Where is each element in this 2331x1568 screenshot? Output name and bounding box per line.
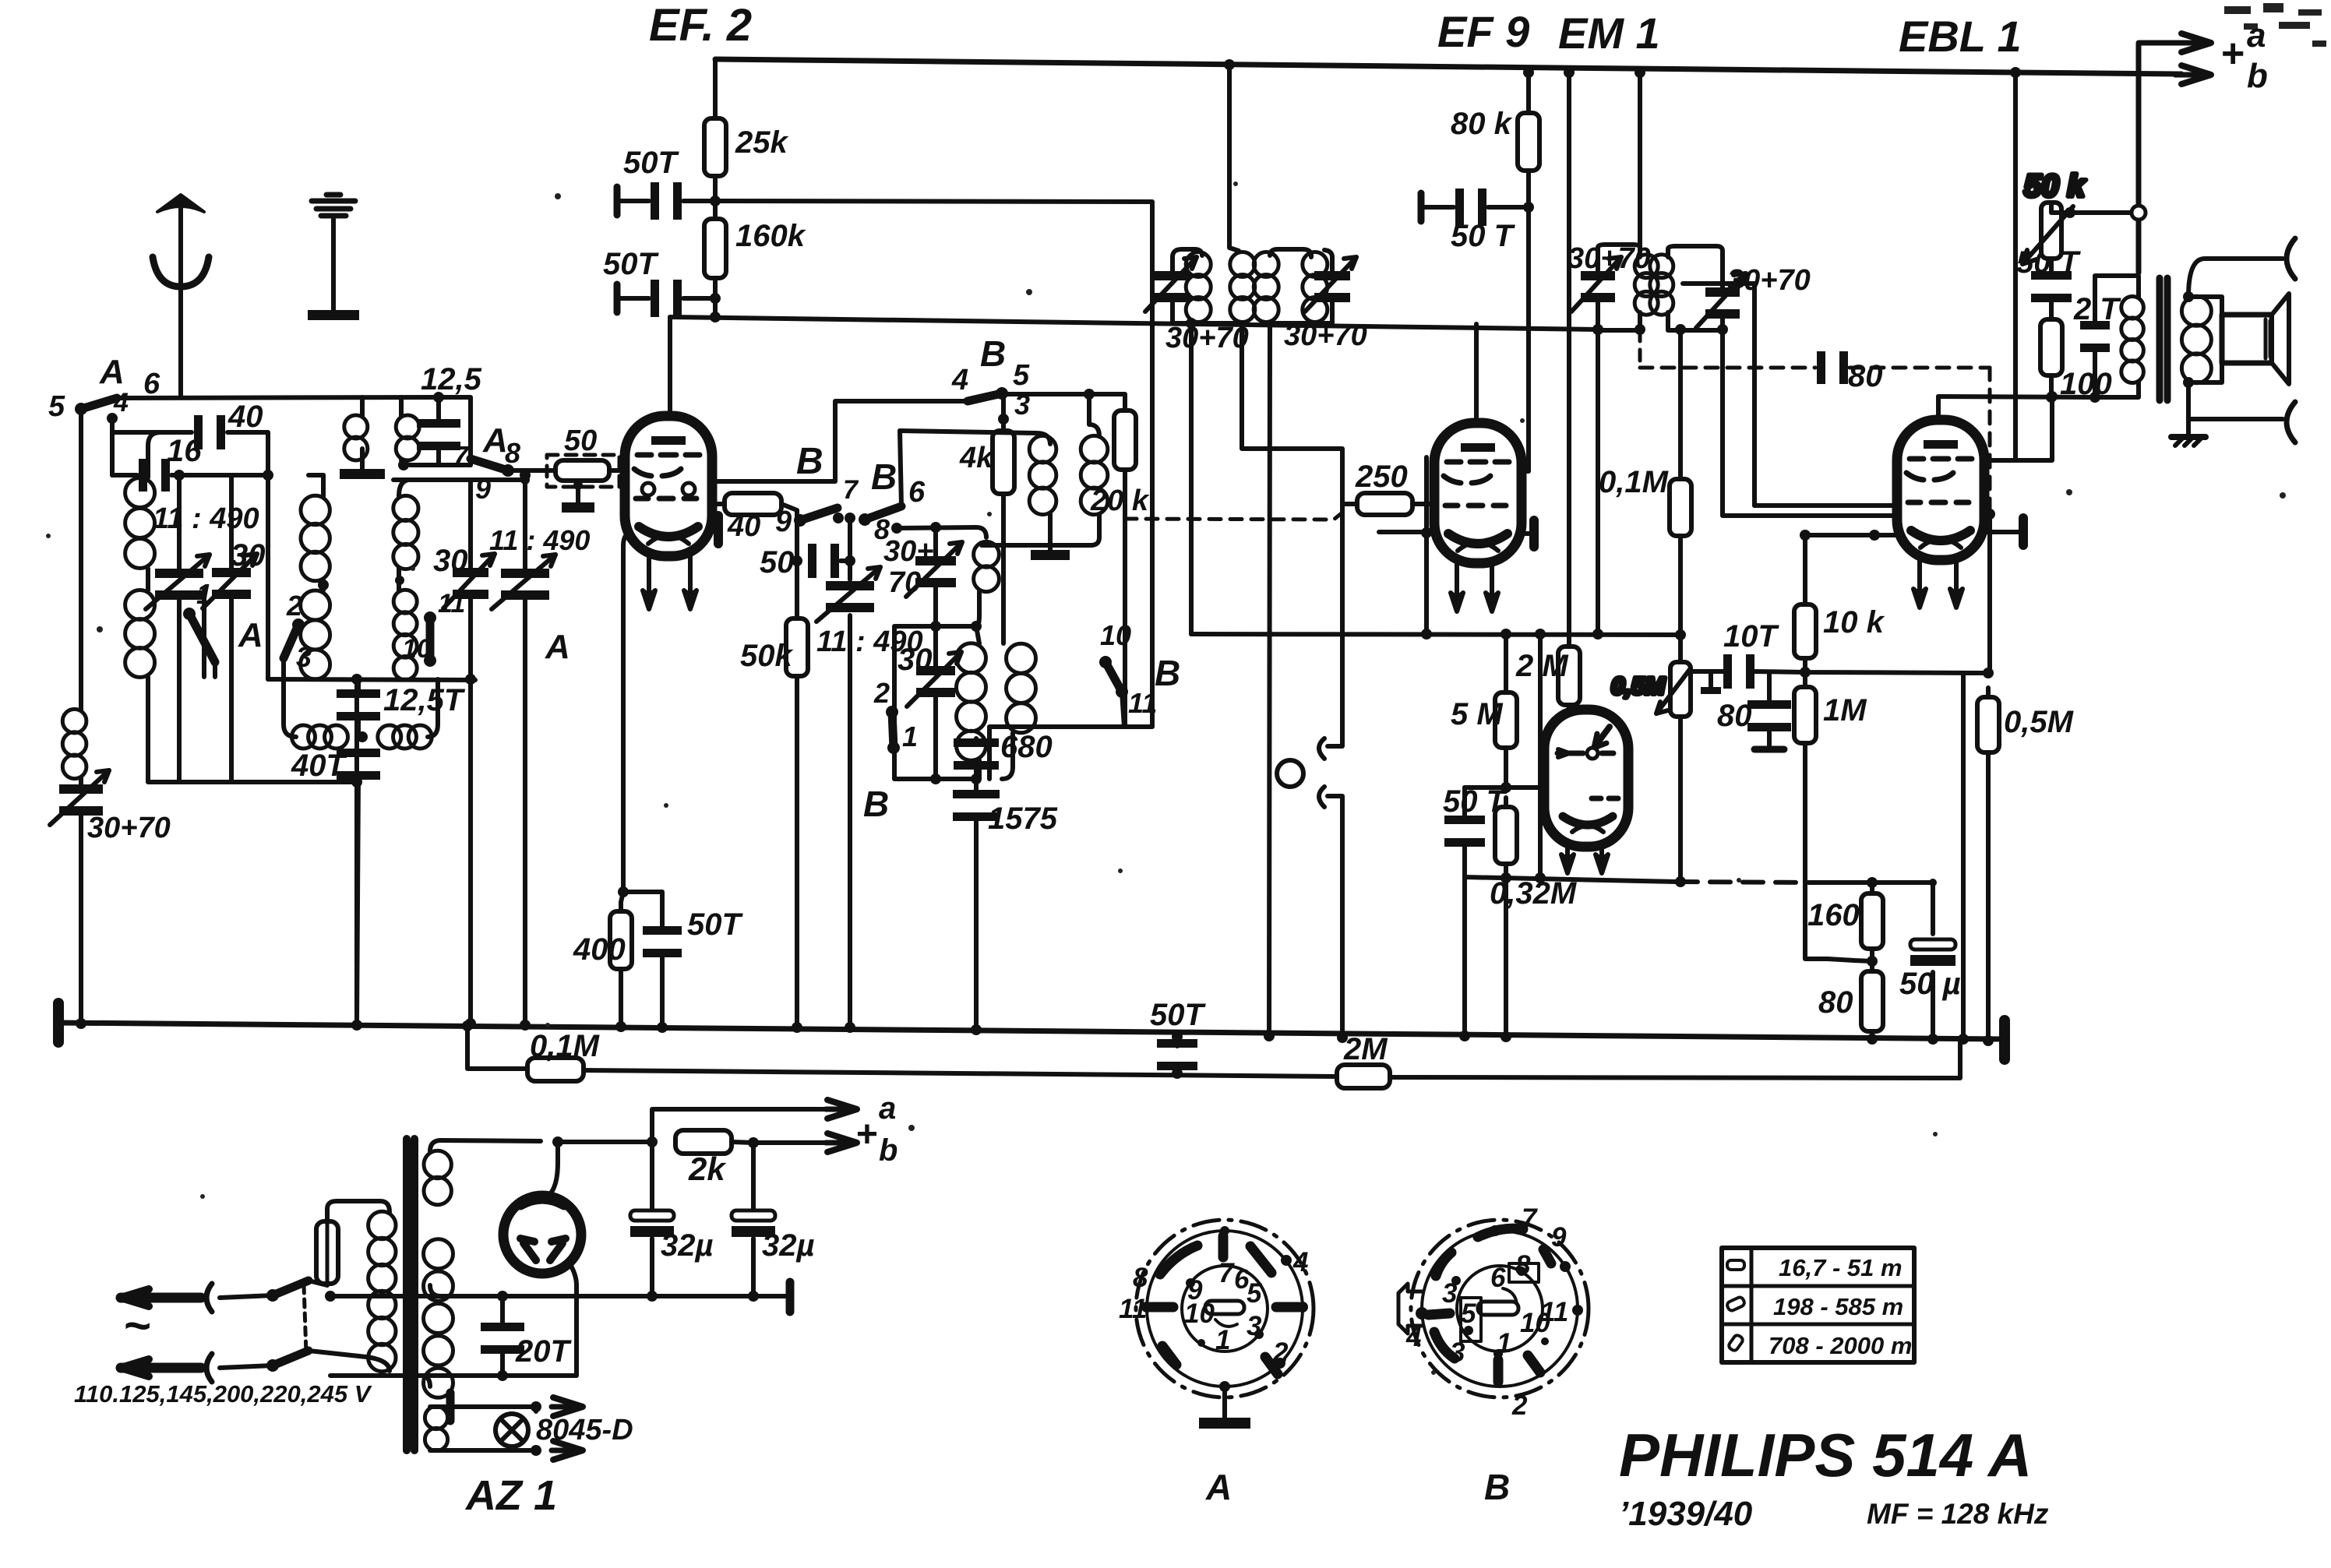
svg-text:50k: 50k	[740, 639, 793, 673]
junction bus 0.32M	[1501, 1031, 1511, 1042]
capacitor 1575	[953, 790, 1058, 836]
wire switch 10-11 tail	[1122, 692, 1124, 727]
wire IF1a sec bottom to grid	[1242, 323, 1342, 504]
wire contact8 to 50 box	[508, 468, 555, 473]
wire V2 af takeoff	[1596, 330, 1600, 634]
wire 50T screen leads	[1421, 205, 1529, 210]
wire bottom rail input block	[268, 679, 475, 680]
svg-text:6: 6	[908, 476, 926, 509]
svg-text:3: 3	[1014, 389, 1030, 421]
junction L2 sec mid	[395, 576, 404, 585]
junction heater bottom	[531, 1445, 541, 1456]
pickup jack arc top	[1319, 738, 1324, 759]
coil IF1a secondary	[1230, 252, 1255, 322]
svg-text:AZ 1: AZ 1	[464, 1472, 557, 1519]
wire 50T AF top link	[1465, 785, 1561, 790]
wire 5M top	[1504, 634, 1508, 692]
junction 160 top	[1867, 877, 1878, 888]
switch A contact7-8 lever	[471, 459, 514, 477]
dashed diamond node	[1984, 509, 1995, 520]
arrow heater bottom	[552, 1441, 583, 1460]
resistor 160	[1807, 884, 1883, 958]
wire coupling right end up	[428, 679, 438, 737]
resistor 1M	[1794, 678, 1867, 752]
coil pad primary	[344, 415, 368, 460]
wire eye feed	[1987, 514, 1992, 673]
junction PSU gnd left	[325, 1291, 336, 1302]
wire 50T-1 leads	[617, 199, 715, 203]
wire ground bus	[58, 1023, 2005, 1039]
scan smudges top right corner	[2224, 3, 2326, 47]
svg-text:11 : 490: 11 : 490	[153, 502, 259, 535]
capacitor 40T	[291, 749, 380, 783]
junction 32u1 top	[647, 1136, 658, 1147]
svg-text:11: 11	[1128, 687, 1157, 719]
switch contact 1 lever	[183, 608, 215, 662]
junction IF2b bottom right	[1717, 324, 1728, 335]
wire AF return 1126	[1465, 877, 1933, 883]
svg-text:3: 3	[1450, 1337, 1465, 1368]
svg-text:A: A	[482, 421, 508, 460]
svg-text:40T: 40T	[291, 749, 347, 783]
IF1 can B bottom rail	[1270, 321, 1332, 326]
svg-text:80: 80	[1818, 985, 1853, 1020]
junction 12.5 top	[433, 392, 444, 403]
terminal tick 50T screen	[1418, 193, 1425, 221]
wire IF2b right col down	[1723, 330, 1899, 516]
resistor 0.1M lower return	[527, 1029, 601, 1081]
junction 160k bottom	[710, 293, 721, 304]
wire lamp to bottom	[510, 1446, 514, 1450]
svg-text:1M: 1M	[1823, 693, 1867, 728]
junction 20T bottom	[497, 1370, 508, 1381]
speaker terminal arc top	[2287, 238, 2295, 279]
chassis ground speaker	[2171, 419, 2206, 446]
wire 2M bottom	[1567, 705, 1571, 723]
wire aerial selector rail	[117, 397, 471, 465]
junction HT wire	[552, 1136, 563, 1147]
potentiometer 0.5M	[1611, 662, 1691, 717]
resistor 2M AVC	[1515, 637, 1580, 714]
arrow heater top	[552, 1397, 583, 1416]
wire V2 screen drop	[1520, 72, 1529, 471]
wire osc upper tops	[900, 394, 1099, 444]
wire 50T-2 leads	[617, 296, 715, 301]
wire AZ1 anode lead	[546, 1142, 558, 1197]
svg-text:80 k: 80 k	[1451, 107, 1513, 141]
resistor 100 anode	[2040, 310, 2112, 401]
wire trimmer30 column1	[229, 475, 234, 782]
svg-text:11: 11	[438, 589, 465, 618]
svg-text:4k: 4k	[959, 442, 994, 474]
capacitor 16	[139, 434, 202, 492]
capacitor 50T cathode	[643, 907, 743, 957]
svg-text:+: +	[855, 1114, 877, 1155]
capacitor 12.5	[417, 362, 482, 450]
svg-text:B: B	[863, 784, 889, 824]
wire ground line PSU	[330, 1294, 790, 1298]
wire V1 screen feed drop	[713, 59, 718, 317]
junction bus 604	[465, 1018, 476, 1029]
svg-text:25k: 25k	[735, 125, 788, 160]
svg-text:50 µ: 50 µ	[1899, 967, 1961, 1001]
svg-text:30+70: 30+70	[1165, 322, 1249, 354]
cathode tick V1	[714, 516, 723, 544]
svg-text:2: 2	[1511, 1390, 1528, 1421]
junction 814 V2col	[1421, 629, 1432, 640]
coil IF2a primary	[1635, 255, 1658, 315]
svg-text:6: 6	[143, 368, 160, 400]
pickup jack circle	[1277, 760, 1303, 787]
svg-text:30: 30	[897, 643, 933, 677]
junction rail varcap	[520, 475, 530, 484]
coil L2 secondary lower	[393, 590, 417, 680]
wire IF1b trimmer column	[1330, 257, 1335, 323]
svg-text:A: A	[238, 616, 263, 654]
wire osc tank top rail	[393, 477, 525, 482]
wire 0.32M bottom	[1504, 864, 1508, 879]
wire osc lower left column	[976, 591, 979, 779]
junction L2 mid	[318, 580, 329, 590]
wire V4 top cap	[1936, 396, 1941, 421]
svg-text:11: 11	[1119, 1294, 1147, 1324]
wire 50T cathode leads	[623, 892, 662, 1027]
junction 814 5M	[1501, 629, 1511, 640]
coil IF2b secondary	[1650, 255, 1673, 315]
svg-text:708 - 2000 m: 708 - 2000 m	[1769, 1332, 1912, 1359]
wire V3 filament left	[1565, 847, 1570, 855]
junction bus 2520	[1958, 1034, 1969, 1045]
wire a branch	[652, 1109, 827, 1142]
junction 100 line	[2046, 392, 2057, 403]
junction lower line at 50T	[1172, 1068, 1183, 1079]
capacitor 50T AF	[1443, 784, 1508, 847]
wire V1 grid B path	[711, 401, 964, 481]
mains terminal bottom	[121, 1354, 273, 1382]
coil L2 primary lower	[301, 590, 330, 679]
svg-text:30+70: 30+70	[1727, 264, 1811, 297]
junction rail 1201 bot	[930, 773, 941, 784]
terminal tick heater	[446, 1393, 455, 1421]
wire trimmer30b column	[468, 480, 473, 679]
wire 400 leads	[621, 892, 623, 1027]
svg-text:8: 8	[505, 437, 520, 469]
arrow V2 filament right	[1486, 586, 1498, 611]
terminal tick 50T-2	[614, 284, 621, 312]
wire V1 top cap	[668, 317, 672, 416]
wire b branch	[732, 1142, 827, 1143]
ground pad primary	[340, 449, 385, 479]
variable capacitor 11-490 padder	[816, 567, 923, 658]
dashed AVC vertical from IF2a	[1638, 330, 1642, 368]
junction V4 line3	[1869, 530, 1880, 541]
earth terminal symbol	[308, 195, 359, 320]
junction 50cap right	[845, 555, 855, 566]
switch B contact2-1 lever	[886, 706, 900, 754]
svg-text:2 T: 2 T	[2073, 292, 2121, 326]
svg-text:EBL 1: EBL 1	[1899, 12, 2022, 61]
wire switch1 tail	[204, 590, 215, 677]
trimmer IF1a 30+70	[1145, 257, 1197, 312]
fuse	[316, 1221, 338, 1284]
svg-text:+: +	[2220, 31, 2244, 76]
junction bus 50T AF	[1459, 1031, 1470, 1041]
wire IF1a trimmer column	[1170, 257, 1175, 323]
wire secondary mid bottom	[330, 1376, 514, 1387]
wire V2 filament left	[1455, 563, 1459, 586]
svg-text:4: 4	[1292, 1247, 1308, 1277]
resistor 0.5M output	[1977, 688, 2075, 762]
junction bus at 50T	[1172, 1031, 1183, 1042]
trimmer IF2a 30+70	[1571, 257, 1621, 312]
capacitor 50u electrolytic	[1899, 939, 1961, 1001]
svg-text:50T: 50T	[603, 247, 659, 281]
wire secondary mid tap line	[330, 1285, 441, 1296]
junction 50u top	[1929, 879, 1937, 886]
junction 5M bottom	[1501, 782, 1511, 793]
svg-text:2: 2	[286, 590, 302, 622]
wire heater top	[430, 1404, 536, 1409]
resistor 160k	[704, 210, 806, 287]
junction V2 left 684	[1421, 527, 1432, 538]
junction bus padder	[845, 1022, 855, 1033]
waveband table	[1722, 1248, 1914, 1362]
junction rail 604 bottom	[465, 674, 476, 685]
junction 32u1 bottom	[647, 1291, 658, 1302]
power transformer core	[407, 1139, 414, 1450]
svg-text:50 k: 50 k	[2024, 169, 2086, 203]
wire 80 bottom	[1870, 1031, 1874, 1039]
IF2 can A frame	[1598, 243, 1640, 330]
junction anode line x918	[710, 312, 721, 322]
wire speaker box top	[2188, 297, 2222, 315]
svg-text:10 k: 10 k	[1823, 605, 1885, 640]
switch B contact6 lever	[859, 506, 901, 526]
svg-text:B: B	[796, 441, 823, 482]
svg-text:2k: 2k	[688, 1150, 727, 1187]
svg-text:3: 3	[1247, 1311, 1262, 1341]
resistor 20k	[1090, 401, 1150, 517]
junction IF2a bottom left	[1592, 324, 1603, 335]
svg-text:A: A	[545, 628, 570, 666]
coil pad secondary	[396, 415, 419, 460]
resistor 80k	[1451, 104, 1539, 180]
dashed shield box around 50 ohm resistor	[547, 455, 619, 487]
wire 258 line right	[715, 201, 1152, 727]
coil L1 aerial primary upper	[125, 478, 155, 569]
svg-text:10: 10	[1184, 1298, 1215, 1329]
arrow supply a	[826, 1100, 857, 1119]
ground tick at wiper	[1701, 671, 1721, 694]
junction osc bottom node	[971, 773, 982, 784]
wire 0.5M bottom	[1986, 752, 1991, 1041]
output transformer primary	[2095, 276, 2139, 397]
svg-text:3: 3	[296, 641, 312, 673]
svg-text:A: A	[1205, 1467, 1232, 1507]
rectifier tube AZ1	[503, 1196, 581, 1274]
junction wiper 1M	[1800, 667, 1811, 678]
svg-text:B: B	[871, 456, 897, 497]
capacitor 40 coupling	[194, 400, 263, 449]
svg-text:a: a	[2247, 16, 2266, 55]
wire lower return line	[467, 1024, 1960, 1078]
svg-text:7: 7	[1522, 1203, 1538, 1234]
junction bus 40T	[351, 1020, 362, 1031]
variable capacitor 11-490 input	[146, 555, 210, 609]
wire node3 stub	[1001, 394, 1006, 431]
wire top B+ bus	[715, 59, 2015, 72]
switch A contact2-3 lever	[284, 618, 305, 658]
wire trimmer30 osc column	[933, 626, 938, 779]
coil secondary middle	[424, 1239, 453, 1398]
junction 50 box ground	[573, 481, 583, 490]
junction 458 1004	[351, 777, 362, 788]
svg-text:30+: 30+	[883, 535, 933, 568]
svg-text:0,1M: 0,1M	[530, 1029, 601, 1063]
wire 20k down	[989, 470, 1125, 779]
wire V2 top cap	[1474, 324, 1479, 423]
coil output secondary	[2181, 296, 2211, 382]
svg-text:7: 7	[453, 440, 470, 472]
arrow terminal b	[2175, 65, 2211, 84]
junction trimmer3070 top	[930, 522, 941, 533]
arrow terminal a	[2175, 33, 2211, 52]
junction 814 right end	[1675, 629, 1686, 640]
wire osc ur bottom	[982, 514, 1099, 545]
svg-text:110.125,145,200,220,245 V: 110.125,145,200,220,245 V	[74, 1380, 372, 1408]
coil L1 aerial primary lower	[125, 590, 155, 678]
coil osc lower right	[1007, 643, 1036, 733]
junction coupling center	[357, 731, 368, 742]
wire IF1a left col down	[1189, 323, 1194, 634]
tube socket diagram A	[1119, 1220, 1314, 1429]
output transformer core	[2160, 278, 2167, 400]
capacitor 2T	[2073, 292, 2121, 352]
svg-text:50T: 50T	[1150, 998, 1206, 1032]
wire IF2a feed from bus	[1638, 72, 1642, 243]
node 5	[76, 403, 86, 414]
resistor 400 cathode	[573, 902, 632, 978]
resistor 25k	[704, 109, 788, 185]
wire L2 secondary column	[399, 480, 408, 590]
wire padder column	[848, 518, 852, 1027]
wire V4 grid line	[1754, 503, 1899, 508]
variable capacitor 11-490 osc	[492, 555, 555, 609]
IF1 can B top rail	[1270, 249, 1332, 257]
node 7b	[845, 513, 855, 523]
wire IF2b left col down	[1678, 330, 1683, 662]
wire V2 left column	[1424, 457, 1429, 634]
junction speaker top	[2183, 291, 2194, 302]
junction bus V4	[2010, 67, 2021, 78]
wire HT wire to 2k	[558, 1140, 652, 1144]
svg-text:80: 80	[1717, 699, 1752, 733]
wire eye cathode drop	[1538, 634, 1543, 878]
wire 250 left	[1342, 502, 1357, 506]
resistor 5M	[1451, 683, 1517, 757]
svg-text:250: 250	[1355, 460, 1408, 494]
svg-text:30: 30	[231, 538, 266, 573]
wire AF bus 814	[1191, 634, 1680, 635]
wire pot50k top	[2051, 203, 2139, 213]
svg-text:EM 1: EM 1	[1558, 9, 1660, 58]
wire 80 cap branch	[1767, 673, 1772, 749]
wire speaker bottom	[2188, 382, 2283, 419]
wire V3 filament right	[1599, 847, 1604, 855]
svg-text:50: 50	[760, 545, 795, 580]
wire node9 column	[795, 520, 799, 1027]
svg-text:MF = 128 kHz: MF = 128 kHz	[1867, 1498, 2049, 1530]
dashed AVC vertical right	[1988, 368, 1992, 510]
svg-text:3: 3	[1442, 1278, 1458, 1309]
wire 1M column	[1805, 672, 1828, 959]
node 7a	[833, 513, 844, 523]
junction bus 50Tcath	[657, 1022, 668, 1033]
junction bus pickup	[1337, 1032, 1348, 1043]
svg-text:7: 7	[1218, 1258, 1235, 1288]
arrow V3 filament left	[1561, 854, 1574, 873]
coil heater secondary	[425, 1406, 447, 1450]
wire HT top lead	[430, 1140, 541, 1151]
wire 10k top	[1803, 535, 1807, 604]
svg-text:50: 50	[564, 425, 597, 457]
dashed oscillator AF link	[1125, 513, 1342, 520]
coil IF1b primary	[1254, 252, 1278, 322]
arrow supply b	[826, 1133, 857, 1152]
ground 50 box	[562, 482, 594, 513]
svg-text:A: A	[99, 353, 125, 391]
coil IF1a primary	[1186, 252, 1211, 322]
resistor 50 grid stopper	[555, 425, 609, 481]
wire V2 filament right	[1490, 563, 1494, 586]
svg-text:PHILIPS 514 A: PHILIPS 514 A	[1619, 1421, 2032, 1489]
svg-text:50T: 50T	[623, 146, 679, 180]
scan speckles	[46, 181, 2286, 1375]
svg-text:11 : 490: 11 : 490	[489, 524, 590, 556]
wire 50u branch	[1931, 883, 1935, 1039]
resistor 40 V1	[725, 493, 781, 543]
arrow V4 filament left	[1913, 583, 1926, 608]
wire 50 gnd stem	[576, 485, 580, 502]
wire pot wiper line	[1689, 671, 1988, 673]
junction bus 80k	[1523, 67, 1534, 78]
junction bus IF1	[1224, 59, 1235, 70]
wire antenna column	[79, 409, 83, 1023]
capacitor 32u first	[630, 1210, 714, 1263]
trimmer IF2b 30+70	[1696, 273, 1746, 328]
junction osc mid tap	[971, 621, 982, 632]
wire IF1b bottom to ground	[1269, 323, 1270, 1036]
resistor 0.1M	[1599, 465, 1691, 545]
svg-text:~: ~	[123, 1299, 150, 1351]
svg-text:11: 11	[1540, 1297, 1568, 1327]
wire rail to bus via 40T	[357, 679, 358, 1025]
junction bus 0.5M	[1983, 1035, 1994, 1046]
svg-text:16,7 - 51 m: 16,7 - 51 m	[1779, 1254, 1903, 1281]
junction speaker bottom	[2183, 377, 2194, 388]
capacitor 80 AVC	[1817, 351, 1883, 393]
switch mains top	[266, 1281, 309, 1302]
wire bus drop IF1	[1229, 65, 1239, 251]
junction 20T top	[497, 1291, 508, 1302]
wire V4 cathode lead	[1983, 530, 2023, 534]
svg-text:5: 5	[48, 390, 65, 423]
wire node4 drop	[110, 418, 115, 475]
junction open 2745-273	[2132, 206, 2146, 220]
wire osc lower right bottom	[1002, 733, 1013, 779]
svg-text:40: 40	[227, 400, 263, 434]
mains terminal top	[121, 1284, 273, 1312]
